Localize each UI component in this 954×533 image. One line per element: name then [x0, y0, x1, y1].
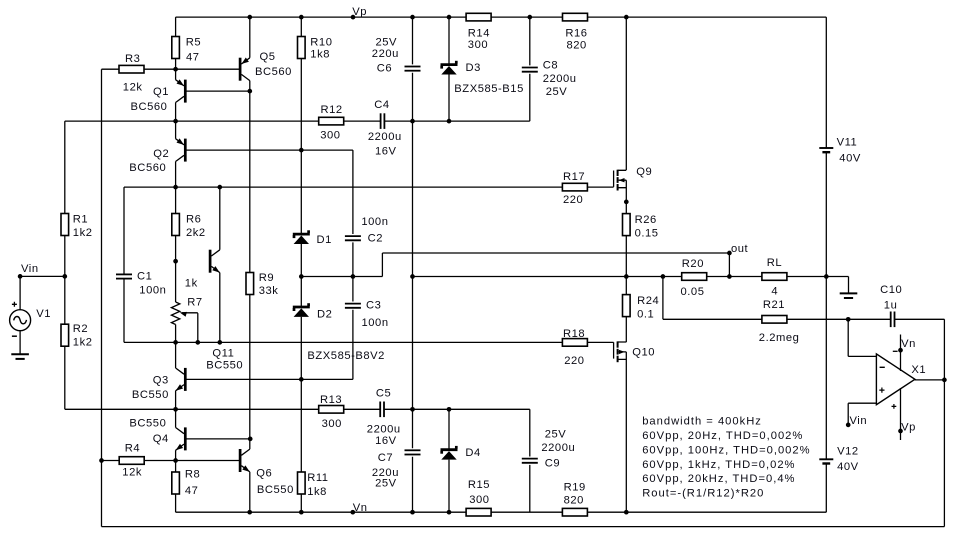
svg-text:C2: C2 — [368, 233, 383, 245]
svg-text:Q3: Q3 — [153, 375, 169, 387]
svg-text:R24: R24 — [637, 295, 659, 307]
svg-text:R21: R21 — [763, 299, 785, 311]
svg-text:D1: D1 — [317, 234, 332, 246]
svg-text:V12: V12 — [837, 445, 859, 457]
svg-text:Vn: Vn — [901, 338, 916, 350]
svg-text:bandwidth = 400kHz: bandwidth = 400kHz — [642, 415, 762, 427]
svg-text:33k: 33k — [259, 285, 279, 297]
svg-text:R13: R13 — [320, 394, 342, 406]
svg-text:2200u: 2200u — [368, 131, 402, 143]
svg-text:47: 47 — [186, 51, 200, 63]
svg-text:100n: 100n — [139, 285, 166, 297]
svg-text:1k8: 1k8 — [307, 486, 327, 498]
svg-text:V11: V11 — [837, 136, 858, 148]
svg-text:R6: R6 — [186, 213, 201, 225]
svg-text:Q2: Q2 — [153, 148, 169, 160]
svg-text:220: 220 — [563, 194, 583, 206]
svg-text:Vin: Vin — [850, 415, 868, 427]
svg-text:BZX585-B15: BZX585-B15 — [454, 83, 524, 95]
svg-text:BC550: BC550 — [129, 417, 166, 429]
svg-text:D2: D2 — [317, 308, 332, 320]
svg-text:R11: R11 — [307, 472, 328, 484]
svg-text:C5: C5 — [376, 388, 391, 400]
svg-text:40V: 40V — [839, 152, 861, 164]
svg-text:R26: R26 — [635, 214, 657, 226]
svg-text:BC550: BC550 — [257, 484, 294, 496]
svg-text:2200u: 2200u — [367, 424, 401, 436]
svg-text:R14: R14 — [468, 27, 490, 39]
svg-text:C6: C6 — [377, 63, 392, 75]
svg-text:R9: R9 — [259, 272, 274, 284]
svg-text:Vn: Vn — [353, 502, 368, 514]
svg-text:60Vpp, 20Hz, THD=0,002%: 60Vpp, 20Hz, THD=0,002% — [642, 430, 803, 442]
svg-text:C10: C10 — [880, 284, 902, 296]
svg-text:1k: 1k — [185, 278, 198, 290]
svg-text:12k: 12k — [122, 466, 142, 478]
svg-text:Q9: Q9 — [636, 166, 652, 178]
svg-text:2k2: 2k2 — [186, 227, 206, 239]
svg-text:220: 220 — [564, 355, 584, 367]
svg-text:0.05: 0.05 — [681, 286, 705, 298]
svg-text:R4: R4 — [125, 442, 140, 454]
svg-text:60Vpp, 100Hz, THD=0,002%: 60Vpp, 100Hz, THD=0,002% — [642, 444, 810, 456]
svg-text:R1: R1 — [73, 213, 88, 225]
svg-text:4: 4 — [771, 285, 778, 297]
svg-text:R20: R20 — [682, 258, 704, 270]
svg-text:C1: C1 — [137, 271, 152, 283]
svg-text:1k2: 1k2 — [73, 336, 93, 348]
svg-text:300: 300 — [468, 39, 488, 51]
svg-text:2200u: 2200u — [543, 73, 577, 85]
svg-text:100n: 100n — [362, 317, 389, 329]
svg-text:0.15: 0.15 — [635, 228, 659, 240]
svg-text:R5: R5 — [186, 37, 201, 49]
svg-text:40V: 40V — [837, 461, 859, 473]
svg-text:C9: C9 — [545, 458, 560, 470]
svg-text:Q11: Q11 — [212, 348, 234, 360]
svg-text:2.2meg: 2.2meg — [759, 332, 800, 344]
svg-text:R16: R16 — [565, 27, 587, 39]
svg-text:Vp: Vp — [352, 6, 367, 18]
svg-text:Q10: Q10 — [632, 347, 655, 359]
svg-text:1u: 1u — [884, 300, 898, 312]
svg-text:C4: C4 — [374, 99, 389, 111]
svg-text:D3: D3 — [466, 62, 481, 74]
svg-text:300: 300 — [320, 129, 340, 141]
svg-text:Q4: Q4 — [153, 433, 169, 445]
svg-text:220u: 220u — [372, 48, 399, 60]
svg-text:25V: 25V — [375, 478, 397, 490]
svg-text:25V: 25V — [376, 36, 398, 48]
svg-text:47: 47 — [185, 485, 199, 497]
svg-text:C7: C7 — [378, 452, 393, 464]
svg-text:R19: R19 — [564, 482, 586, 494]
svg-text:R10: R10 — [310, 37, 332, 49]
svg-text:Rout=-(R1/R12)*R20: Rout=-(R1/R12)*R20 — [642, 488, 764, 500]
svg-text:100n: 100n — [361, 216, 388, 228]
svg-text:C8: C8 — [543, 59, 558, 71]
svg-text:60Vpp, 1kHz, THD=0,02%: 60Vpp, 1kHz, THD=0,02% — [642, 459, 795, 471]
svg-text:BC550: BC550 — [206, 360, 243, 372]
svg-text:R3: R3 — [125, 53, 140, 65]
svg-text:0.1: 0.1 — [637, 309, 654, 321]
svg-text:Q1: Q1 — [153, 86, 169, 98]
svg-text:R12: R12 — [321, 104, 343, 116]
svg-text:16V: 16V — [375, 435, 397, 447]
svg-text:1k2: 1k2 — [73, 227, 93, 239]
svg-text:820: 820 — [567, 40, 587, 52]
svg-text:C3: C3 — [366, 300, 381, 312]
svg-text:BC560: BC560 — [255, 66, 292, 78]
svg-text:R17: R17 — [563, 171, 585, 183]
svg-text:D4: D4 — [465, 447, 480, 459]
svg-text:R18: R18 — [563, 328, 585, 340]
svg-text:BZX585-B8V2: BZX585-B8V2 — [307, 350, 385, 362]
svg-text:300: 300 — [322, 418, 342, 430]
svg-text:Vp: Vp — [901, 422, 916, 434]
svg-text:V1: V1 — [36, 308, 51, 320]
svg-text:R15: R15 — [468, 479, 490, 491]
svg-text:12k: 12k — [123, 82, 143, 94]
svg-text:BC550: BC550 — [132, 389, 169, 401]
svg-text:60Vpp, 20kHz, THD=0,4%: 60Vpp, 20kHz, THD=0,4% — [642, 473, 795, 485]
svg-text:BC560: BC560 — [131, 101, 168, 113]
svg-text:out: out — [731, 243, 749, 255]
svg-text:25V: 25V — [546, 86, 568, 98]
svg-text:RL: RL — [767, 257, 782, 269]
svg-text:R7: R7 — [187, 297, 202, 309]
svg-text:Q6: Q6 — [256, 468, 272, 480]
svg-text:2200u: 2200u — [541, 442, 575, 454]
svg-text:R8: R8 — [185, 469, 200, 481]
svg-text:BC560: BC560 — [129, 162, 166, 174]
svg-text:R2: R2 — [73, 323, 88, 335]
svg-text:Q5: Q5 — [260, 51, 276, 63]
svg-text:16V: 16V — [375, 145, 397, 157]
svg-text:25V: 25V — [545, 429, 567, 441]
svg-text:Vin: Vin — [21, 263, 39, 275]
svg-text:820: 820 — [564, 494, 584, 506]
svg-text:1k8: 1k8 — [310, 48, 330, 60]
svg-text:X1: X1 — [911, 364, 926, 376]
svg-text:300: 300 — [469, 494, 489, 506]
